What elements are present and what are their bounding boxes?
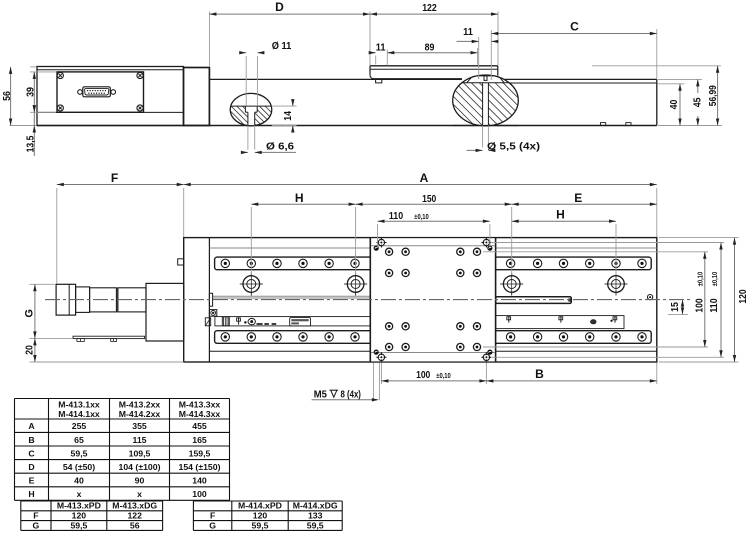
dimension B: [656, 363, 658, 385]
svg-text:H: H: [28, 489, 34, 499]
svg-text:14: 14: [283, 111, 294, 121]
svg-text:±0,10: ±0,10: [710, 272, 719, 287]
dimension E: [512, 203, 657, 205]
centerline (plan): [45, 299, 691, 301]
dimension 56: [30, 66, 36, 68]
dimension 13,5: [33, 112, 35, 156]
svg-text:455: 455: [192, 421, 207, 431]
dimension 122: [497, 12, 499, 66]
dimension D: [208, 12, 210, 68]
svg-text:100: 100: [416, 370, 430, 381]
plate screw: [137, 105, 143, 111]
M5 thread hole: [378, 354, 384, 360]
small pads on bottom edge: [601, 123, 606, 126]
svg-text:120: 120: [72, 510, 87, 520]
svg-text:±0,10: ±0,10: [436, 371, 451, 380]
locating pin hole: [487, 350, 492, 355]
svg-text:8 (4x): 8 (4x): [341, 390, 361, 401]
dimension Ø5,5 (4x): [482, 126, 484, 148]
svg-text:40: 40: [74, 476, 84, 486]
counterbore walls: [244, 106, 246, 112]
switch mark 4: [611, 320, 613, 322]
svg-text:100: 100: [695, 298, 706, 312]
M5 thread hole: [483, 239, 489, 245]
svg-text:H: H: [295, 191, 304, 205]
limit switch band (right): [496, 316, 624, 329]
connector plate: [57, 72, 144, 112]
bottom edge across section: [453, 125, 519, 127]
dimension H (left): [250, 207, 252, 275]
dimension 20: [30, 361, 184, 363]
svg-text:F: F: [33, 510, 38, 520]
motor housing block (side view): [37, 67, 184, 126]
coupling block (side view): [184, 68, 210, 126]
svg-text:40: 40: [669, 99, 680, 109]
motor body (plan): [90, 288, 117, 312]
guide rail bottom: [215, 331, 652, 344]
plate screw: [137, 72, 143, 78]
base bottom edge: [37, 125, 657, 127]
platform mounting hole: [402, 323, 409, 330]
dimension Ø11: [245, 56, 247, 106]
locating pin hole: [487, 246, 492, 251]
svg-text:Ø 11: Ø 11: [272, 41, 292, 52]
svg-text:133: 133: [308, 510, 323, 520]
svg-text:56: 56: [2, 91, 13, 101]
svg-text:M5: M5: [314, 390, 328, 401]
svg-text:11: 11: [376, 43, 386, 54]
svg-text:11: 11: [463, 27, 473, 38]
coupling joint line (plan): [208, 238, 210, 362]
svg-text:A: A: [420, 171, 429, 185]
svg-text:M-414.1xx: M-414.1xx: [58, 409, 100, 419]
limit switch band (left): [215, 317, 370, 326]
stage base body (side view): [209, 78, 462, 80]
dimension H (right): [615, 224, 617, 275]
label sticker: [290, 318, 311, 326]
dimension 56,99: [592, 65, 721, 67]
motor mount screw block: [209, 310, 216, 317]
svg-text:65: 65: [74, 435, 84, 445]
platform mounting hole: [473, 248, 480, 255]
svg-text:120: 120: [253, 510, 268, 520]
svg-text:Ø 6,6: Ø 6,6: [266, 141, 294, 152]
dimension Ø6,6: [247, 126, 249, 150]
platform mounting hole: [386, 323, 393, 330]
screw seat line: [462, 82, 509, 84]
svg-text:122: 122: [127, 510, 142, 520]
svg-text:59,5: 59,5: [307, 520, 324, 530]
svg-text:A: A: [28, 421, 35, 431]
svg-text:E: E: [574, 191, 582, 205]
svg-text:M-414.2xx: M-414.2xx: [119, 409, 161, 419]
svg-text:59,5: 59,5: [252, 520, 269, 530]
svg-text:F: F: [210, 510, 215, 520]
svg-text:13,5: 13,5: [26, 135, 37, 152]
platform mounting hole: [386, 248, 393, 255]
svg-text:109,5: 109,5: [129, 448, 151, 458]
svg-text:56: 56: [130, 520, 140, 530]
table M-414 F/G: [193, 500, 342, 502]
platform mounting hole: [402, 343, 409, 350]
svg-text:255: 255: [72, 421, 87, 431]
svg-text:165: 165: [192, 435, 207, 445]
dimension 100 ±0,10 (bottom): [380, 363, 382, 385]
svg-text:x: x: [77, 489, 82, 499]
svg-text:20: 20: [24, 345, 35, 355]
small block with diagonal: [205, 318, 210, 326]
base reference hole: [240, 283, 263, 285]
svg-text:59,5: 59,5: [71, 448, 88, 458]
dimension 89: [477, 48, 479, 65]
motor rear cap (plan): [56, 284, 76, 315]
svg-text:M-414.3xx: M-414.3xx: [179, 409, 221, 419]
svg-text:154 (±150): 154 (±150): [179, 462, 221, 472]
index screw: [248, 318, 255, 324]
D-sub 15 connector: [78, 90, 83, 95]
dimension 11 (right): [478, 37, 480, 79]
svg-text:B: B: [28, 435, 34, 445]
platform left foot: [376, 79, 382, 83]
motor segment 2: [76, 287, 90, 313]
dimension G: [30, 283, 56, 285]
platform mounting hole: [457, 269, 464, 276]
svg-text:100: 100: [192, 489, 207, 499]
switch flag: [238, 317, 240, 324]
svg-text:104 (±100): 104 (±100): [119, 462, 161, 472]
dimension F: [56, 188, 58, 284]
screw head profile: [467, 76, 504, 83]
svg-text:G: G: [209, 520, 216, 530]
platform mounting hole: [402, 269, 409, 276]
svg-text:E: E: [29, 476, 35, 486]
small dot: [244, 321, 246, 323]
rail screws top: [221, 259, 229, 267]
svg-text:159,5: 159,5: [189, 448, 211, 458]
dimension 110 ±0,10 (top): [377, 224, 379, 247]
moving platform top plate (side view): [370, 65, 498, 67]
svg-text:M-414.xDG: M-414.xDG: [293, 501, 338, 511]
svg-text:56,99: 56,99: [708, 85, 719, 106]
switch mark 2: [560, 316, 562, 322]
leadscrew end screw: [648, 295, 653, 300]
svg-text:G: G: [23, 309, 35, 318]
base reference hole: [605, 283, 628, 285]
platform mounting hole: [473, 323, 480, 330]
locating pin hole: [374, 350, 379, 355]
svg-text:122: 122: [422, 3, 437, 14]
platform mounting hole: [457, 323, 464, 330]
base right edge: [656, 79, 658, 125]
svg-text:±0,10: ±0,10: [696, 272, 705, 287]
svg-text:±0,10: ±0,10: [414, 212, 429, 221]
svg-text:110: 110: [389, 211, 403, 222]
dimension table A-H: [15, 398, 230, 400]
base reference hole: [344, 283, 367, 285]
gearbox (plan): [118, 288, 146, 312]
svg-text:59,5: 59,5: [70, 520, 87, 530]
dimension 39: [30, 71, 56, 73]
dimension 40: [658, 83, 685, 85]
dimension 150: [511, 207, 513, 275]
dimension C: [490, 30, 492, 80]
svg-text:89: 89: [425, 43, 435, 54]
svg-text:45: 45: [693, 97, 704, 107]
dimension 45: [658, 78, 702, 80]
screw slot: [484, 76, 487, 81]
dimension 110 ±0,10 (right): [492, 242, 724, 244]
svg-text:15: 15: [670, 302, 681, 312]
svg-text:F: F: [111, 171, 118, 185]
svg-text:B: B: [535, 367, 544, 381]
plate screw: [57, 72, 63, 78]
adjustment screw stripes: [222, 317, 229, 326]
svg-text:M-413.xPD: M-413.xPD: [57, 501, 101, 511]
svg-text:110: 110: [709, 298, 720, 312]
svg-text:D: D: [28, 462, 34, 472]
dimension 14: [272, 105, 297, 107]
plate screw: [57, 105, 63, 111]
svg-text:C: C: [570, 19, 579, 33]
platform mounting hole: [473, 343, 480, 350]
svg-text:Ø 5,5 (4x): Ø 5,5 (4x): [487, 142, 540, 153]
svg-text:54 (±50): 54 (±50): [63, 462, 95, 472]
leadscrew (plan): [213, 295, 371, 297]
dimension 15: [668, 313, 688, 315]
dimension 11 (left): [375, 56, 377, 65]
pin stub on body left edge: [178, 259, 184, 265]
platform mounting hole: [402, 248, 409, 255]
svg-text:x: x: [137, 489, 142, 499]
platform mounting hole: [457, 248, 464, 255]
motor flange (plan): [146, 283, 184, 341]
svg-text:120: 120: [738, 289, 749, 303]
platform mounting hole: [386, 269, 393, 276]
rail screws bottom: [221, 333, 229, 341]
dimension 100 ±0,10 (right): [483, 251, 708, 253]
svg-text:115: 115: [132, 435, 146, 445]
cable tray bar: [73, 336, 145, 338]
counterbore chord line: [231, 105, 272, 107]
switch mark 3: [591, 320, 597, 324]
svg-text:90: 90: [135, 476, 145, 486]
platform mounting hole: [473, 269, 480, 276]
base outline (plan): [184, 238, 657, 362]
svg-text:H: H: [556, 208, 565, 222]
dimension A: [656, 188, 658, 237]
guide rail top: [215, 257, 652, 270]
svg-text:M-414.xPD: M-414.xPD: [238, 501, 282, 511]
svg-text:M-413.xDG: M-413.xDG: [112, 501, 157, 511]
svg-text:39: 39: [26, 87, 37, 97]
table M-413 F/G: [21, 500, 163, 502]
svg-text:D: D: [275, 0, 284, 14]
leadscrew bearing: [209, 293, 212, 306]
svg-text:C: C: [28, 448, 35, 458]
three dashes: [257, 323, 263, 325]
M5 thread hole: [378, 239, 384, 245]
M5 thread hole: [483, 354, 489, 360]
svg-text:355: 355: [132, 421, 147, 431]
platform mounting hole: [386, 343, 393, 350]
locating pin hole: [374, 246, 379, 251]
svg-text:150: 150: [422, 194, 436, 205]
moving platform (plan): [370, 238, 495, 361]
switch mark 1: [508, 316, 510, 322]
svg-text:G: G: [33, 520, 40, 530]
dimension 120: [659, 237, 739, 239]
M5 depth 8 (4x) thread callout: [372, 363, 374, 401]
platform mounting hole: [457, 343, 464, 350]
sensor rail (right): [496, 297, 572, 304]
svg-text:140: 140: [192, 476, 207, 486]
base reference hole: [500, 283, 523, 285]
